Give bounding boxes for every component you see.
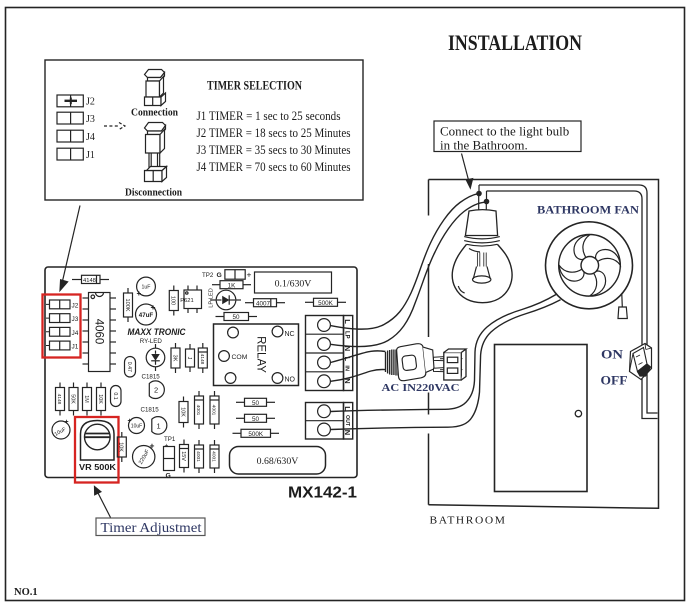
capacitor 0.47 bbox=[125, 357, 136, 378]
svg-text:P621: P621 bbox=[180, 298, 194, 304]
capacitor 1uF bbox=[137, 277, 156, 298]
test point TP2 bbox=[202, 270, 252, 280]
svg-text:10K: 10K bbox=[118, 442, 124, 452]
svg-text:4001: 4001 bbox=[195, 451, 201, 462]
wire IN N to plug bbox=[331, 369, 386, 381]
svg-text:50: 50 bbox=[252, 416, 260, 423]
diode 4001 a bbox=[195, 391, 204, 429]
jumper J2 bbox=[50, 300, 79, 310]
svg-text:+: + bbox=[247, 270, 252, 280]
wire OUT L to fan bbox=[331, 295, 557, 412]
fan pull cord bbox=[618, 294, 627, 319]
svg-text:NO.1: NO.1 bbox=[14, 587, 38, 598]
svg-text:NO: NO bbox=[285, 376, 296, 383]
svg-text:+: + bbox=[150, 441, 155, 451]
svg-text:J2: J2 bbox=[86, 97, 95, 108]
svg-text:4148: 4148 bbox=[83, 278, 96, 284]
svg-text:0.1: 0.1 bbox=[112, 392, 118, 399]
capacitor 47uF bbox=[136, 302, 157, 325]
diode 4007 bbox=[245, 299, 285, 308]
svg-text:J3 TIMER = 35 secs to 30 Minut: J3 TIMER = 35 secs to 30 Minutes bbox=[197, 142, 351, 157]
jumper J3 bbox=[50, 314, 79, 324]
resistor 50K bbox=[69, 383, 78, 416]
test point TP1 bbox=[164, 436, 176, 480]
resistor 3K bbox=[171, 343, 180, 373]
resistor 4148 bottom bbox=[56, 383, 65, 416]
svg-text:INSTALLATION: INSTALLATION bbox=[448, 30, 582, 55]
svg-text:G: G bbox=[166, 473, 171, 480]
door bbox=[495, 345, 588, 492]
timer selection box bbox=[45, 60, 363, 200]
svg-text:4001: 4001 bbox=[195, 405, 201, 416]
svg-text:0.1/630V: 0.1/630V bbox=[275, 278, 312, 289]
jumper J4 bbox=[50, 327, 79, 337]
svg-text:C1815: C1815 bbox=[142, 373, 161, 380]
resistor 100K bbox=[124, 288, 133, 322]
svg-text:0.68/630V: 0.68/630V bbox=[257, 456, 299, 467]
svg-text:50: 50 bbox=[232, 314, 240, 321]
svg-text:1K: 1K bbox=[228, 282, 237, 289]
svg-text:MAXX TRONIC: MAXX TRONIC bbox=[128, 327, 186, 337]
svg-text:BATHROOM: BATHROOM bbox=[430, 515, 507, 527]
svg-text:0.47: 0.47 bbox=[126, 362, 132, 372]
resistor 1M bbox=[83, 383, 92, 416]
resistor 10K bbox=[97, 383, 106, 416]
wire OUT N to fan bbox=[331, 300, 561, 430]
svg-text:4001: 4001 bbox=[210, 405, 216, 416]
svg-text:BATHROOM FAN: BATHROOM FAN bbox=[537, 205, 640, 217]
svg-text:J4: J4 bbox=[72, 330, 79, 337]
plug body bbox=[396, 343, 434, 381]
LED LP-LED bbox=[210, 290, 241, 310]
resistor 500K b bbox=[233, 429, 280, 438]
arrow from timer box to PCB jumpers bbox=[60, 206, 80, 291]
optocoupler P621 bbox=[180, 286, 201, 314]
svg-text:VR 500K: VR 500K bbox=[79, 463, 116, 472]
svg-text:J4 TIMER = 70 secs to 60 Minut: J4 TIMER = 70 secs to 60 Minutes bbox=[197, 159, 351, 174]
svg-text:4007: 4007 bbox=[256, 300, 271, 307]
jumper J1 bbox=[50, 341, 79, 351]
fan blade right bbox=[596, 249, 621, 265]
svg-text:15V: 15V bbox=[180, 451, 186, 461]
svg-text:50: 50 bbox=[252, 400, 260, 407]
svg-text:100: 100 bbox=[170, 296, 176, 305]
svg-text:4148: 4148 bbox=[56, 394, 62, 405]
svg-text:TP2: TP2 bbox=[202, 272, 214, 279]
svg-text:AC IN220VAC: AC IN220VAC bbox=[382, 382, 460, 394]
svg-text:J: J bbox=[186, 357, 192, 360]
fan blade top bbox=[574, 235, 590, 260]
capacitor 0.68/630V bbox=[230, 447, 326, 475]
resistor 10K mid bbox=[117, 432, 126, 462]
svg-text:C1815: C1815 bbox=[141, 407, 160, 414]
terminal block OUT bbox=[306, 403, 353, 440]
svg-text:LP-LED: LP-LED bbox=[209, 288, 215, 308]
resistor 50 a bbox=[236, 398, 275, 407]
bathroom wall top right bottom bbox=[429, 180, 659, 509]
dashed arrow bbox=[104, 123, 125, 130]
capacitor 0.1/630V bbox=[255, 272, 332, 293]
capacitor 10uF left bbox=[52, 419, 70, 439]
potentiometer VR 500K bbox=[79, 421, 116, 473]
jumper stubs bbox=[46, 304, 50, 345]
junction node 1 bbox=[477, 185, 481, 196]
plug prong upper bbox=[434, 356, 462, 361]
svg-text:L: L bbox=[343, 319, 352, 324]
arrow to VR bbox=[95, 487, 111, 518]
svg-text:LP: LP bbox=[344, 331, 350, 339]
light bulb bbox=[452, 210, 512, 303]
diode 4001 d bbox=[210, 440, 219, 473]
svg-text:COM: COM bbox=[232, 354, 248, 361]
relay bbox=[214, 324, 299, 386]
svg-text:J2: J2 bbox=[72, 303, 79, 310]
fan blade left bbox=[559, 265, 584, 281]
terminal block LP/IN bbox=[306, 316, 353, 391]
red box around VR bbox=[75, 417, 119, 483]
fan blade bottom bbox=[590, 271, 606, 296]
svg-text:3K: 3K bbox=[171, 355, 177, 362]
svg-text:J2 TIMER = 18 secs to 25 Minut: J2 TIMER = 18 secs to 25 Minutes bbox=[197, 125, 351, 140]
wire LP L arc to bulb bbox=[331, 194, 478, 329]
svg-text:OFF: OFF bbox=[601, 372, 628, 387]
svg-text:+: + bbox=[151, 302, 156, 312]
svg-text:100K: 100K bbox=[124, 298, 130, 311]
svg-text:NC: NC bbox=[285, 331, 295, 338]
svg-text:Connection: Connection bbox=[131, 108, 178, 119]
svg-text:1uF: 1uF bbox=[142, 284, 151, 290]
svg-text:47uF: 47uF bbox=[139, 312, 154, 319]
junction node 2 bbox=[484, 191, 488, 204]
svg-text:RELAY: RELAY bbox=[255, 336, 267, 373]
transistor Q2 C1815 bbox=[149, 381, 164, 399]
switch body bbox=[630, 344, 652, 380]
wire pair top and right wall bbox=[479, 185, 658, 413]
PCB board MX142-1 bbox=[45, 267, 357, 478]
svg-text:TIMER SELECTION: TIMER SELECTION bbox=[207, 79, 302, 93]
svg-text:G: G bbox=[217, 272, 222, 279]
plug prong lower bbox=[434, 367, 462, 372]
plug strain relief coil bbox=[386, 350, 399, 376]
svg-text:RY-LED: RY-LED bbox=[140, 338, 163, 345]
callout box connect to light bulb bbox=[434, 121, 581, 153]
svg-text:2: 2 bbox=[154, 386, 158, 395]
wire IN L to plug bbox=[331, 351, 386, 363]
svg-text:10uF: 10uF bbox=[131, 424, 142, 430]
svg-text:500K: 500K bbox=[248, 431, 264, 438]
resistor 10K right bbox=[179, 397, 188, 428]
svg-text:+: + bbox=[128, 418, 132, 425]
jumper J2 (connected) bbox=[57, 95, 95, 108]
arrow from callout to junction bbox=[462, 154, 473, 189]
resistor 100 bbox=[169, 286, 178, 316]
svg-text:4060: 4060 bbox=[93, 319, 105, 345]
svg-text:50K: 50K bbox=[69, 394, 75, 404]
diode 4001 c bbox=[195, 440, 204, 473]
IC 4060 bbox=[83, 293, 117, 372]
svg-text:OUT: OUT bbox=[344, 415, 350, 427]
svg-text:in the Bathroom.: in the Bathroom. bbox=[440, 138, 528, 153]
svg-text:500K: 500K bbox=[318, 300, 334, 307]
fan outer circle bbox=[546, 222, 633, 309]
timer adjustment callout box bbox=[96, 518, 205, 536]
svg-text:ON: ON bbox=[601, 346, 624, 361]
jumper J1 bbox=[57, 148, 95, 161]
diode 4001 b bbox=[210, 391, 219, 429]
svg-text:N: N bbox=[343, 430, 352, 435]
svg-text:10K: 10K bbox=[97, 394, 103, 404]
svg-text:4148: 4148 bbox=[199, 354, 205, 365]
transistor Q1 C1815 bbox=[152, 417, 167, 435]
svg-text:MX142-1: MX142-1 bbox=[288, 485, 357, 502]
resistor 1K bbox=[212, 281, 251, 290]
wire LP N arc to bulb bbox=[331, 202, 485, 346]
connection jumper icon bbox=[145, 70, 166, 106]
red box around jumpers bbox=[43, 295, 81, 358]
svg-text:+: + bbox=[65, 419, 69, 426]
svg-text:Disconnection: Disconnection bbox=[125, 188, 182, 199]
LED RY-LED bbox=[146, 344, 165, 371]
fan inner circle bbox=[559, 234, 621, 296]
svg-text:J3: J3 bbox=[86, 114, 95, 125]
svg-text:4001: 4001 bbox=[210, 451, 216, 462]
zener 15V bbox=[180, 440, 189, 473]
svg-text:J1 TIMER = 1 sec to 25 seconds: J1 TIMER = 1 sec to 25 seconds bbox=[197, 108, 341, 123]
bathroom wall left bbox=[428, 180, 430, 505]
svg-text:10K: 10K bbox=[179, 407, 185, 417]
svg-text:J1: J1 bbox=[86, 150, 95, 161]
jumper J4 bbox=[57, 130, 95, 143]
capacitor 10uF mid bbox=[128, 418, 145, 434]
svg-text:IN: IN bbox=[344, 365, 350, 371]
outlet bbox=[444, 349, 466, 380]
resistor 50 top bbox=[216, 313, 258, 322]
resistor 500K top bbox=[305, 298, 346, 307]
svg-text:J4: J4 bbox=[86, 132, 95, 143]
svg-text:1: 1 bbox=[157, 421, 161, 430]
diode 4148 bbox=[198, 343, 207, 373]
svg-text:+: + bbox=[137, 289, 142, 298]
capacitor 0.1 bbox=[111, 386, 122, 407]
resistor 50 b bbox=[236, 414, 275, 423]
disconnection jumper icon bbox=[145, 123, 167, 182]
svg-text:J3: J3 bbox=[72, 316, 79, 323]
light bulb cord bbox=[479, 196, 487, 211]
diode 4148 top bbox=[72, 275, 109, 284]
svg-text:Timer Adjustmet: Timer Adjustmet bbox=[101, 521, 202, 536]
jumper J3 bbox=[57, 112, 95, 125]
svg-text:1M: 1M bbox=[83, 395, 89, 403]
capacitor 220uF bbox=[133, 441, 155, 468]
svg-text:Connect to the light bulb: Connect to the light bulb bbox=[440, 124, 569, 139]
svg-text:J1: J1 bbox=[72, 344, 79, 351]
fan hub bbox=[581, 257, 599, 275]
jumper J bbox=[186, 344, 195, 372]
